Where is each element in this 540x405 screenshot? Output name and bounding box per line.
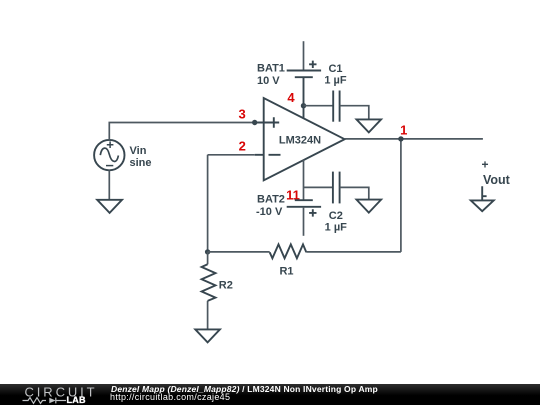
svg-text:R1: R1 xyxy=(279,265,293,277)
node output junction dot xyxy=(398,136,403,141)
resistor R2 xyxy=(202,252,216,329)
label Vin sine xyxy=(130,145,152,169)
CircuitLab logo xyxy=(0,384,110,405)
svg-text:+: + xyxy=(481,158,488,172)
svg-text:C2: C2 xyxy=(329,210,343,222)
label C2 1uF xyxy=(325,210,348,234)
svg-text:LM324N: LM324N xyxy=(279,134,321,146)
resistor R1 xyxy=(208,244,401,258)
op-amp U1 LM324N xyxy=(255,98,345,180)
svg-text:10 V: 10 V xyxy=(257,75,280,87)
node feedback junction dot xyxy=(205,249,210,254)
svg-text:Vout: Vout xyxy=(483,173,511,187)
wire pin2 to feedback node xyxy=(208,155,255,252)
footer bar xyxy=(0,384,540,405)
svg-text:2: 2 xyxy=(239,139,246,154)
wire Vin top to op-amp +in xyxy=(109,123,254,140)
footer title text xyxy=(111,385,378,394)
label BAT2 -10 V xyxy=(256,194,285,218)
svg-text:4: 4 xyxy=(287,90,295,105)
footer url text xyxy=(110,393,230,402)
svg-text:1: 1 xyxy=(400,122,407,137)
ground at C1 xyxy=(357,119,382,132)
ground below Vin xyxy=(97,200,122,213)
label + Vout xyxy=(481,158,510,188)
svg-text:Vin: Vin xyxy=(130,145,147,157)
svg-text:LAB: LAB xyxy=(67,395,86,405)
probe Vout xyxy=(471,186,494,211)
wire pin4 to op-amp xyxy=(303,106,305,119)
voltage source V1 Vin xyxy=(94,140,124,170)
capacitor C2 xyxy=(304,172,369,204)
wire op-amp output xyxy=(345,138,483,140)
svg-text:-10 V: -10 V xyxy=(256,206,283,218)
svg-text:C1: C1 xyxy=(328,63,342,75)
svg-text:BAT1: BAT1 xyxy=(257,63,285,75)
battery BAT1 xyxy=(287,41,321,106)
svg-text:CIRCUIT: CIRCUIT xyxy=(25,384,98,399)
svg-text:1 µF: 1 µF xyxy=(325,222,348,234)
ground below R2 xyxy=(195,329,220,342)
capacitor C1 xyxy=(304,91,369,122)
svg-text:3: 3 xyxy=(238,107,245,122)
wire pin11 from op-amp to BAT2 xyxy=(303,160,305,200)
battery BAT2 xyxy=(287,200,321,236)
wire feedback up to output node xyxy=(400,139,402,252)
wire Vin bottom to ground xyxy=(108,170,110,200)
svg-text:1 µF: 1 µF xyxy=(324,75,347,87)
svg-text:BAT2: BAT2 xyxy=(257,194,285,206)
ground at C2 xyxy=(357,200,382,213)
node pin3 junction dot xyxy=(252,120,257,125)
node pin4 junction dot xyxy=(301,103,306,108)
svg-text:R2: R2 xyxy=(219,280,233,292)
svg-text:sine: sine xyxy=(130,157,152,169)
label BAT1 10 V xyxy=(257,63,285,88)
label C1 1uF xyxy=(324,63,347,87)
